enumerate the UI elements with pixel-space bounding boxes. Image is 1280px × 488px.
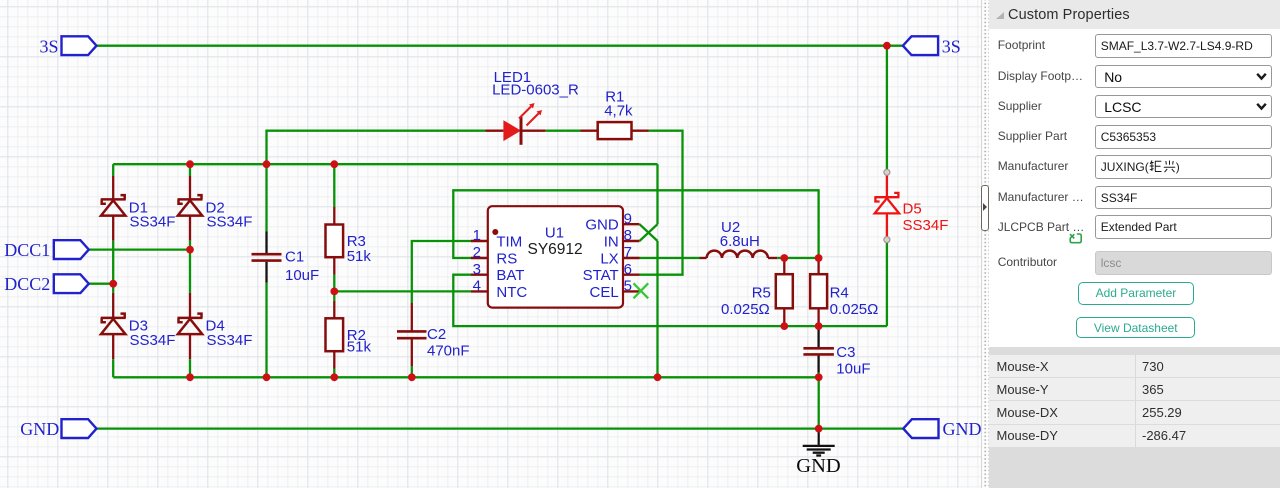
svg-text:R5: R5 (752, 285, 771, 302)
svg-text:D5: D5 (903, 201, 922, 218)
svg-text:6.8uH: 6.8uH (720, 233, 760, 250)
svg-text:10uF: 10uF (285, 267, 319, 284)
svg-text:DCC2: DCC2 (4, 274, 50, 294)
svg-text:6: 6 (624, 261, 632, 278)
svg-text:GND: GND (796, 455, 840, 477)
svg-text:1: 1 (473, 227, 481, 244)
svg-text:2: 2 (473, 244, 481, 261)
svg-text:CEL: CEL (590, 284, 619, 301)
svg-text:IN: IN (604, 233, 619, 250)
svg-text:3: 3 (473, 261, 481, 278)
svg-text:R4: R4 (830, 285, 849, 302)
svg-text:BAT: BAT (496, 267, 524, 284)
svg-text:10uF: 10uF (836, 361, 870, 378)
svg-text:C1: C1 (285, 248, 304, 265)
svg-text:LX: LX (600, 250, 618, 267)
svg-text:51k: 51k (347, 338, 372, 355)
svg-text:RS: RS (496, 250, 517, 267)
svg-text:STAT: STAT (583, 267, 619, 284)
svg-text:GND: GND (20, 419, 59, 439)
svg-text:4,7k: 4,7k (604, 103, 633, 120)
svg-text:LED-0603_R: LED-0603_R (492, 81, 579, 98)
svg-text:470nF: 470nF (427, 342, 470, 359)
svg-text:SS34F: SS34F (207, 332, 253, 349)
svg-text:7: 7 (624, 244, 632, 261)
svg-text:SS34F: SS34F (207, 214, 253, 231)
svg-text:8: 8 (624, 227, 632, 244)
svg-text:U1: U1 (545, 224, 564, 241)
svg-text:SS34F: SS34F (903, 217, 949, 234)
svg-text:GND: GND (943, 419, 982, 439)
svg-text:5: 5 (624, 278, 632, 295)
svg-text:SY6912: SY6912 (528, 241, 583, 258)
svg-text:C3: C3 (836, 344, 855, 361)
svg-text:3S: 3S (39, 36, 58, 56)
svg-text:51k: 51k (347, 248, 372, 265)
svg-text:4: 4 (473, 278, 481, 295)
svg-text:SS34F: SS34F (130, 214, 176, 231)
svg-text:SS34F: SS34F (130, 332, 176, 349)
svg-text:C2: C2 (427, 326, 446, 343)
svg-text:0.025Ω: 0.025Ω (721, 301, 770, 318)
svg-text:NTC: NTC (496, 284, 527, 301)
svg-text:GND: GND (585, 217, 619, 234)
svg-text:0.025Ω: 0.025Ω (830, 301, 879, 318)
svg-text:TIM: TIM (496, 233, 522, 250)
svg-text:3S: 3S (942, 36, 961, 56)
svg-text:DCC1: DCC1 (4, 240, 50, 260)
svg-text:9: 9 (624, 210, 632, 227)
